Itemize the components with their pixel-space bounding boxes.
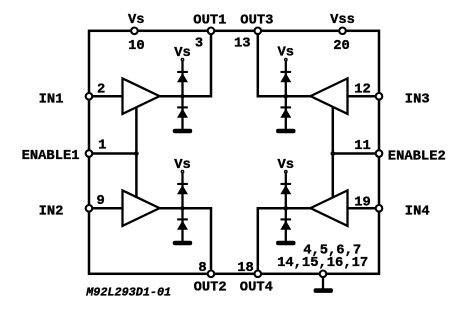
diode D6 to ground (cathode bar) — [281, 106, 292, 108]
svg-text:Vs: Vs — [128, 13, 145, 28]
svg-text:Vss: Vss — [330, 13, 355, 28]
svg-text:9: 9 — [97, 194, 105, 209]
diode D3 to Vs (arrow) — [177, 185, 188, 194]
diode D7 to Vs (cathode bar) — [281, 183, 292, 185]
wire chain 1 vertical — [181, 62, 183, 130]
pin 4,5,6,7,14,15,16,17 ground pin circle — [320, 271, 327, 278]
svg-text:8: 8 — [198, 261, 206, 276]
svg-text:OUT2: OUT2 — [194, 281, 227, 296]
svg-text:ENABLE1: ENABLE1 — [22, 149, 80, 164]
diode D6 to ground (arrow) — [280, 108, 291, 117]
node junction chain 4 / output 4 — [284, 206, 289, 211]
wire OUT4 from buffer 4 output to pin 18 — [258, 208, 311, 273]
svg-text:IN1: IN1 — [39, 92, 64, 107]
node junction ENABLE2 — [331, 151, 336, 156]
op-amp buffer 2 (channel 2) — [123, 190, 160, 226]
wire IN3 input stub — [347, 95, 380, 98]
wire IN1 input stub — [89, 95, 124, 98]
ground symbol chain 3 — [276, 129, 295, 134]
wire OUT1 from buffer 1 output to pin 3 — [160, 31, 212, 97]
svg-text:OUT4: OUT4 — [240, 281, 273, 296]
svg-text:12: 12 — [354, 83, 371, 98]
svg-text:11: 11 — [354, 139, 371, 154]
ground symbol bottom pins — [314, 288, 333, 293]
svg-text:20: 20 — [333, 39, 350, 54]
svg-text:OUT1: OUT1 — [193, 13, 226, 28]
pin 18 circle (OUT4) — [254, 271, 261, 278]
svg-text:Vs: Vs — [278, 46, 295, 61]
diode D7 to Vs (arrow) — [280, 185, 291, 194]
node junction chain 2 / output 2 — [180, 206, 185, 211]
wire ground pin stub — [322, 274, 324, 289]
node junction chain 3 / output 3 — [284, 94, 289, 99]
diode D1 to Vs (cathode bar) — [177, 71, 188, 73]
svg-text:IN3: IN3 — [405, 93, 430, 108]
diode D4 to ground (cathode bar) — [177, 218, 188, 220]
diode clamp chain channel 1 — [173, 59, 192, 134]
ground symbol chain 4 — [276, 241, 295, 246]
svg-text:IN4: IN4 — [405, 205, 430, 220]
diode D8 to ground (cathode bar) — [281, 218, 292, 220]
pin 3 circle (OUT1) — [208, 28, 215, 35]
wire OUT3 from buffer 3 output to pin 13 — [258, 31, 311, 97]
svg-text:Vs: Vs — [174, 46, 191, 61]
diode D4 to ground (arrow) — [177, 220, 188, 229]
wire chain 2 vertical — [181, 174, 183, 242]
ground symbol chain 2 — [173, 241, 192, 246]
svg-text:18: 18 — [237, 261, 254, 276]
wire IN4 input stub — [347, 207, 380, 210]
pin 19 circle (IN4) — [376, 205, 383, 212]
wire chain 4 vertical — [285, 174, 287, 242]
diode D5 to Vs (arrow) — [280, 73, 291, 82]
wire ENABLE2 stub — [333, 152, 379, 155]
diode D1 to Vs (arrow) — [177, 73, 188, 82]
node junction ENABLE1 — [134, 151, 139, 156]
ground symbol chain 1 — [173, 129, 192, 134]
node Vs terminal circle chain 2 — [181, 171, 183, 173]
diode clamp chain channel 2 — [173, 171, 192, 246]
wire enable vertical joining buffer 3 and buffer 4 enables — [332, 107, 335, 197]
diode clamp chain channel 4 — [276, 171, 295, 246]
svg-text:1: 1 — [98, 139, 106, 154]
svg-text:10: 10 — [128, 39, 145, 54]
svg-text:Vs: Vs — [278, 158, 295, 173]
pin 11 circle (ENABLE2) — [376, 150, 383, 157]
svg-text:IN2: IN2 — [39, 204, 64, 219]
wire chain 3 vertical — [285, 62, 287, 130]
svg-text:19: 19 — [354, 195, 371, 210]
wire ENABLE1 stub — [89, 152, 136, 155]
svg-text:OUT3: OUT3 — [240, 13, 273, 28]
pin 2 circle (IN1) — [86, 93, 93, 100]
op-amp buffer 4 (channel 4) — [311, 190, 348, 226]
diode clamp chain channel 3 — [276, 59, 295, 134]
node Vs terminal circle chain 1 — [181, 59, 183, 61]
diode D3 to Vs (cathode bar) — [177, 183, 188, 185]
diode D2 to ground (arrow) — [177, 108, 188, 117]
pin 1 circle (ENABLE1) — [86, 150, 93, 157]
node Vs terminal circle chain 3 — [285, 59, 287, 61]
svg-text:3: 3 — [195, 36, 203, 51]
node Vs terminal circle chain 4 — [285, 171, 287, 173]
node junction chain 1 / output 1 — [180, 94, 185, 99]
pin 10 circle (Vs) — [131, 28, 138, 35]
svg-text:ENABLE2: ENABLE2 — [388, 150, 446, 165]
svg-text:Vs: Vs — [174, 158, 191, 173]
pin 9 circle (IN2) — [86, 205, 93, 212]
diode D5 to Vs (cathode bar) — [281, 71, 292, 73]
svg-text:14,15,16,17: 14,15,16,17 — [277, 256, 368, 271]
svg-text:2: 2 — [97, 83, 105, 98]
svg-text:13: 13 — [234, 37, 251, 52]
diode D2 to ground (cathode bar) — [177, 106, 188, 108]
wire OUT2 from buffer 2 output to pin 8 — [160, 208, 212, 273]
svg-text:M92L293D1-01: M92L293D1-01 — [85, 286, 171, 300]
op-amp buffer 3 (channel 3) — [311, 78, 348, 114]
pin 20 circle (Vss) — [339, 28, 346, 35]
wire enable vertical joining buffer 1 and buffer 2 enables — [135, 107, 138, 197]
pin 12 circle (IN3) — [376, 93, 383, 100]
pin 8 circle (OUT2) — [208, 271, 215, 278]
wire IN2 input stub — [89, 207, 124, 210]
wire outer supply/ground bus rectangle — [89, 31, 379, 274]
diode D8 to ground (arrow) — [280, 220, 291, 229]
op-amp buffer 1 (channel 1) — [123, 78, 160, 114]
pin 13 circle (OUT3) — [254, 28, 261, 35]
